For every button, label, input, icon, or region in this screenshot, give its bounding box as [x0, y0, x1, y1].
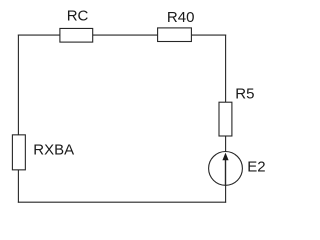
svg-text:R5: R5 — [235, 86, 254, 103]
wire right middle (R5 to E2) — [225, 136, 227, 152]
resistor R5 — [219, 86, 254, 137]
wire top-right segment — [191, 34, 226, 36]
resistor RXBA — [12, 135, 74, 170]
resistor R40 — [158, 9, 195, 41]
svg-text:RC: RC — [67, 7, 89, 24]
wire top-middle segment — [93, 34, 158, 36]
wire left upper — [17, 35, 19, 135]
svg-text:R40: R40 — [167, 9, 195, 26]
wire right lower — [225, 185, 227, 202]
resistor RC — [60, 7, 93, 42]
svg-text:E2: E2 — [247, 159, 265, 176]
wire right upper — [225, 35, 227, 103]
svg-text:RXBA: RXBA — [33, 142, 74, 159]
wire top-left segment — [18, 34, 60, 36]
source E2 — [209, 152, 266, 186]
wire bottom — [18, 201, 226, 203]
wire left lower — [17, 170, 19, 203]
